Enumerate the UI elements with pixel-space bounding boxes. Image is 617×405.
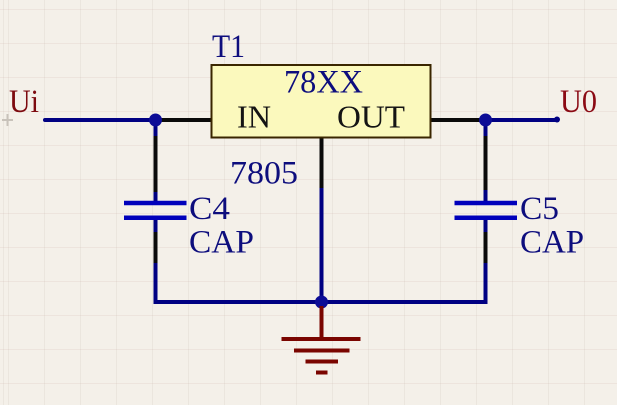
pin 1 of capacitor C4	[154, 136, 158, 192]
pin IN (pin 1) of regulator T1	[156, 118, 211, 122]
wire: stub out of C4 bottom plate	[154, 220, 158, 232]
wire: C4 top stub from node A	[154, 120, 158, 136]
ground symbol	[282, 306, 361, 373]
pin 2 of capacitor C4	[154, 232, 158, 263]
wire: stub into C4 top plate	[154, 192, 158, 201]
svg-text:U0: U0	[560, 84, 597, 120]
svg-text:7805: 7805	[230, 156, 298, 192]
junction node GND	[315, 296, 328, 309]
svg-text:T1: T1	[212, 29, 245, 65]
svg-text:CAP: CAP	[189, 225, 254, 261]
wire: input horizontal from Ui terminal to node A	[45, 118, 156, 122]
wire: vertical from GND pin down to ground node	[320, 188, 324, 302]
pin OUT (pin 3) of regulator T1	[430, 118, 486, 122]
wire: C5 top stub from node B	[484, 120, 488, 136]
wire: stub into C5 top plate	[484, 190, 488, 201]
wire: output horizontal from node B to U0 terminal	[486, 118, 556, 122]
svg-text:C5: C5	[520, 191, 559, 227]
svg-text:Ui: Ui	[9, 84, 39, 120]
svg-text:78XX: 78XX	[284, 65, 363, 101]
port marker at Ui terminal	[2, 114, 13, 126]
pin 1 of capacitor C5	[484, 136, 488, 190]
svg-text:CAP: CAP	[520, 225, 584, 261]
wire: stub out of C5 bottom plate	[484, 220, 488, 232]
svg-text:C4: C4	[189, 191, 230, 227]
capacitor C4 plates	[124, 203, 187, 218]
capacitor C5 plates	[455, 203, 518, 218]
junction node B (output)	[479, 114, 492, 127]
pin GND (pin 2) of regulator T1	[320, 137, 324, 188]
wire: bottom ground bus from C4 to C5	[154, 300, 486, 304]
wire: C4 bottom down to bottom bus corner	[154, 263, 158, 302]
svg-text:IN: IN	[237, 99, 271, 135]
junction node A (input)	[149, 114, 162, 127]
regulator U1 body (78XX)	[212, 65, 431, 138]
pin 2 of capacitor C5	[484, 232, 488, 263]
svg-text:OUT: OUT	[337, 99, 405, 135]
wire: C5 bottom down to bottom bus corner	[484, 263, 488, 304]
